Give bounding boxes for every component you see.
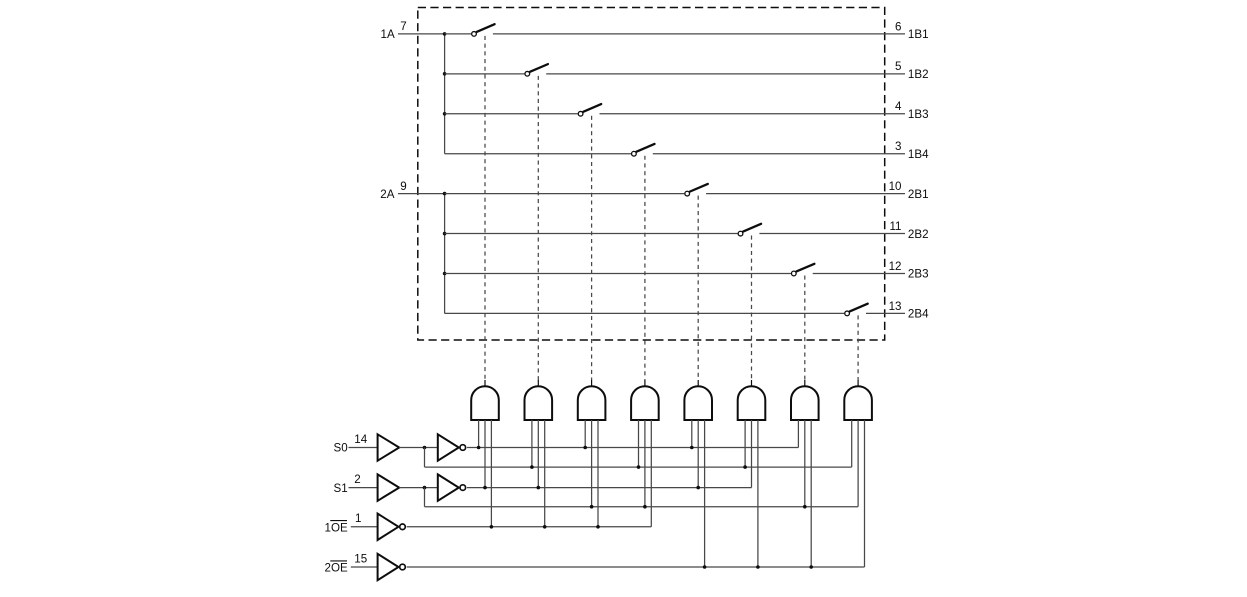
node S1 branch junction: [423, 486, 427, 490]
svg-text:15: 15: [354, 552, 367, 565]
wire S0 branch down: [424, 448, 426, 468]
svg-text:1B3: 1B3: [908, 108, 929, 121]
wire gate G3 input mid: [591, 420, 593, 507]
wire 2A input: [398, 193, 445, 195]
svg-text:1: 1: [355, 512, 361, 525]
inverter U5 (1OE): [378, 514, 399, 540]
inverter U6 (2OE): [378, 554, 399, 580]
node S0 branch junction: [423, 446, 427, 450]
inverter U5 bubble: [400, 524, 406, 530]
svg-text:12: 12: [889, 260, 902, 273]
switch SW7 lever: [796, 264, 814, 272]
wire gate G4 output stub: [644, 380, 646, 387]
AND gate G4: [631, 386, 659, 420]
wire 2OE enable row F: [407, 566, 865, 568]
node row-A gate G3: [583, 446, 587, 450]
node row-A gate G1: [477, 446, 481, 450]
node row-C gate G1: [483, 486, 487, 490]
node row-E gate G1: [490, 525, 494, 529]
wire switch SW3 control dashed: [591, 116, 593, 380]
wire row6 bus to switch: [445, 233, 738, 235]
wire gate G8 input right: [864, 420, 866, 567]
switch SW3 pole circle: [578, 111, 583, 116]
node row-A gate G5: [690, 446, 694, 450]
AND gate G2: [525, 386, 553, 420]
switch SW2 lever: [530, 64, 548, 72]
AND gate G3: [578, 386, 606, 420]
node row-F gate G7: [809, 565, 813, 569]
inverter U4 bubble: [460, 485, 466, 491]
wire row8 bus to switch: [445, 312, 845, 314]
switch SW7 pole circle: [791, 271, 796, 276]
wire S0 true row B: [425, 466, 852, 468]
switch SW8 lever: [850, 304, 868, 312]
wire gate G8 input left: [851, 420, 853, 467]
buffer U3 (S1): [378, 474, 400, 500]
wire gate G1 output stub: [484, 380, 486, 387]
dashed function-block border: [418, 8, 885, 341]
node row-E gate G2: [543, 525, 547, 529]
node 1A junction row2: [443, 72, 447, 76]
switch SW1 lever: [477, 24, 495, 32]
wire gate G6 input left: [744, 420, 746, 467]
wire S1 buffer to inverter: [399, 487, 438, 489]
wire 1A input: [398, 33, 445, 35]
wire switch SW2 control dashed: [537, 76, 539, 380]
node row-D gate G4: [643, 505, 647, 509]
AND gate G6: [738, 386, 766, 420]
wire row2 bus to switch: [445, 73, 525, 75]
wire S1-complement row C: [467, 487, 752, 489]
svg-text:10: 10: [889, 180, 902, 193]
wire gate G6 output stub: [751, 380, 753, 387]
wire row4 switch to 1B4: [653, 153, 905, 155]
svg-text:5: 5: [895, 60, 901, 73]
switch SW6 pole circle: [738, 231, 743, 236]
svg-text:2: 2: [354, 473, 360, 486]
wire gate G7 output stub: [804, 380, 806, 387]
wire S1 input: [349, 487, 378, 489]
svg-text:2A: 2A: [380, 188, 394, 201]
buffer U1 (S0): [378, 434, 400, 460]
node 2A junction row7: [443, 272, 447, 276]
svg-text:3: 3: [895, 140, 901, 153]
wire row3 bus to switch: [445, 113, 578, 115]
wire 2OE input: [351, 566, 378, 568]
svg-text:2OE: 2OE: [325, 561, 348, 574]
svg-text:4: 4: [895, 100, 902, 113]
wire gate G2 input left: [531, 420, 533, 467]
overline 1OE: [330, 520, 347, 522]
wire row4 bus to switch: [445, 153, 631, 155]
wire row3 switch to 1B3: [600, 113, 906, 115]
wire S0-complement row A: [467, 447, 798, 449]
switch SW6 lever: [743, 224, 761, 232]
node 1A junction row1: [443, 32, 447, 36]
node row-B gate G4: [637, 465, 641, 469]
wire S1 branch down: [424, 488, 426, 507]
wire gate G1 input right: [490, 420, 492, 527]
wire row6 switch to 2B2: [759, 233, 905, 235]
node row-E gate G3: [596, 525, 600, 529]
wire switch SW1 control dashed: [484, 36, 486, 380]
inverter U2 (S0 complement): [438, 434, 459, 460]
wire switch SW4 control dashed: [644, 156, 646, 380]
switch SW5 lever: [690, 184, 708, 192]
switch SW1 pole circle: [472, 32, 477, 37]
overline 2OE: [330, 560, 347, 562]
wire gate G7 input right: [810, 420, 812, 567]
wire switch SW7 control dashed: [804, 275, 806, 380]
node row-C gate G5: [696, 486, 700, 490]
svg-text:2B3: 2B3: [908, 268, 929, 281]
AND gate G1: [471, 386, 499, 420]
switch SW2 pole circle: [525, 71, 530, 76]
switch SW5 pole circle: [685, 191, 690, 196]
wire gate G1 input left: [478, 420, 480, 448]
svg-text:2B4: 2B4: [908, 308, 929, 321]
svg-text:2B2: 2B2: [908, 228, 929, 241]
svg-text:13: 13: [889, 300, 902, 313]
wire row7 bus to switch: [445, 272, 791, 274]
wire gate G2 output stub: [537, 380, 539, 387]
wire row2 switch to 1B2: [546, 73, 905, 75]
node row-B gate G6: [743, 465, 747, 469]
wire row8 switch to 2B4: [866, 312, 905, 314]
node row-C gate G2: [537, 486, 541, 490]
wire row7 switch to 2B3: [813, 272, 905, 274]
AND gate G8: [844, 386, 872, 420]
svg-text:1A: 1A: [381, 28, 395, 41]
wire gate G8 output stub: [857, 380, 859, 387]
switch SW4 lever: [637, 144, 655, 152]
wire gate G4 input left: [638, 420, 640, 467]
node row-F gate G5: [703, 565, 707, 569]
node 1A junction row3: [443, 112, 447, 116]
svg-text:7: 7: [400, 20, 406, 33]
inverter U6 bubble: [400, 564, 406, 570]
AND gate G7: [791, 386, 819, 420]
wire switch SW8 control dashed: [857, 315, 859, 380]
wire 1OE enable row E: [407, 526, 652, 528]
svg-text:11: 11: [889, 220, 901, 233]
wire gate G8 input mid: [857, 420, 859, 507]
wire 2A bus vertical: [444, 194, 446, 314]
svg-text:14: 14: [354, 433, 367, 446]
wire gate G4 input mid: [644, 420, 646, 507]
wire row5 bus to switch: [445, 193, 685, 195]
wire gate G5 input left: [691, 420, 693, 448]
wire gate G4 input right: [650, 420, 652, 527]
wire gate G5 output stub: [697, 380, 699, 387]
wire row1 switch to 1B1: [493, 33, 905, 35]
switch SW3 lever: [583, 104, 601, 112]
wire gate G7 input left: [797, 420, 799, 448]
node 2A junction row6: [443, 232, 447, 236]
wire S1 true row D: [425, 506, 859, 508]
wire gate G3 output stub: [591, 380, 593, 387]
wire gate G1 input mid: [484, 420, 486, 488]
wire gate G7 input mid: [804, 420, 806, 507]
svg-text:6: 6: [895, 20, 901, 33]
svg-text:S0: S0: [334, 442, 348, 455]
svg-text:9: 9: [400, 180, 406, 193]
wire switch SW6 control dashed: [751, 236, 753, 380]
wire gate G2 input right: [544, 420, 546, 527]
wire switch SW5 control dashed: [697, 196, 699, 380]
svg-text:1B1: 1B1: [908, 28, 929, 41]
wire row5 switch to 2B1: [706, 193, 905, 195]
wire 1OE input: [351, 526, 378, 528]
node row-B gate G2: [530, 465, 534, 469]
switch SW8 pole circle: [845, 311, 850, 316]
wire gate G6 input right: [757, 420, 759, 567]
switch SW4 pole circle: [632, 151, 637, 156]
inverter U2 bubble: [460, 445, 466, 451]
wire gate G6 input mid: [751, 420, 753, 488]
wire gate G3 input right: [597, 420, 599, 527]
svg-text:1OE: 1OE: [325, 521, 348, 534]
inverter U4 (S1 complement): [438, 474, 459, 500]
wire gate G3 input left: [584, 420, 586, 448]
svg-text:2B1: 2B1: [908, 188, 929, 201]
svg-text:S1: S1: [334, 482, 348, 495]
wire gate G2 input mid: [537, 420, 539, 488]
wire gate G5 input mid: [697, 420, 699, 488]
wire S0 input: [349, 447, 378, 449]
node row-D gate G7: [803, 505, 807, 509]
node row-D gate G3: [590, 505, 594, 509]
wire 1A bus vertical: [444, 34, 446, 154]
svg-text:1B4: 1B4: [908, 148, 929, 161]
AND gate G5: [684, 386, 712, 420]
node 2A junction row5: [443, 192, 447, 196]
wire row1 bus to switch: [445, 33, 472, 35]
svg-text:1B2: 1B2: [908, 68, 929, 81]
wire S0 buffer to inverter: [399, 447, 438, 449]
node row-F gate G6: [756, 565, 760, 569]
wire gate G5 input right: [704, 420, 706, 567]
